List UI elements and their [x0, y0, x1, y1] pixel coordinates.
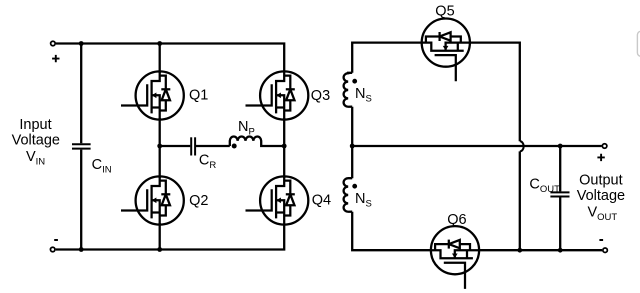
svg-text:NS: NS [355, 191, 372, 209]
svg-text:Q1: Q1 [189, 87, 208, 103]
svg-text:COUT: COUT [529, 176, 560, 194]
svg-text:Q5: Q5 [435, 4, 454, 20]
svg-text:NP: NP [238, 119, 255, 137]
svg-text:Voltage: Voltage [577, 188, 625, 204]
svg-text:Q6: Q6 [447, 212, 466, 228]
svg-text:CIN: CIN [92, 157, 112, 175]
svg-text:VOUT: VOUT [588, 205, 618, 223]
svg-text:Input: Input [19, 117, 51, 133]
svg-text:Q4: Q4 [312, 192, 331, 208]
svg-text:VIN: VIN [26, 149, 45, 167]
svg-text:CR: CR [199, 153, 216, 171]
svg-text:Q3: Q3 [311, 88, 330, 104]
svg-text:Voltage: Voltage [12, 132, 60, 148]
svg-text:NS: NS [355, 86, 372, 104]
svg-text:Q2: Q2 [189, 193, 208, 209]
svg-text:Output: Output [579, 172, 623, 188]
